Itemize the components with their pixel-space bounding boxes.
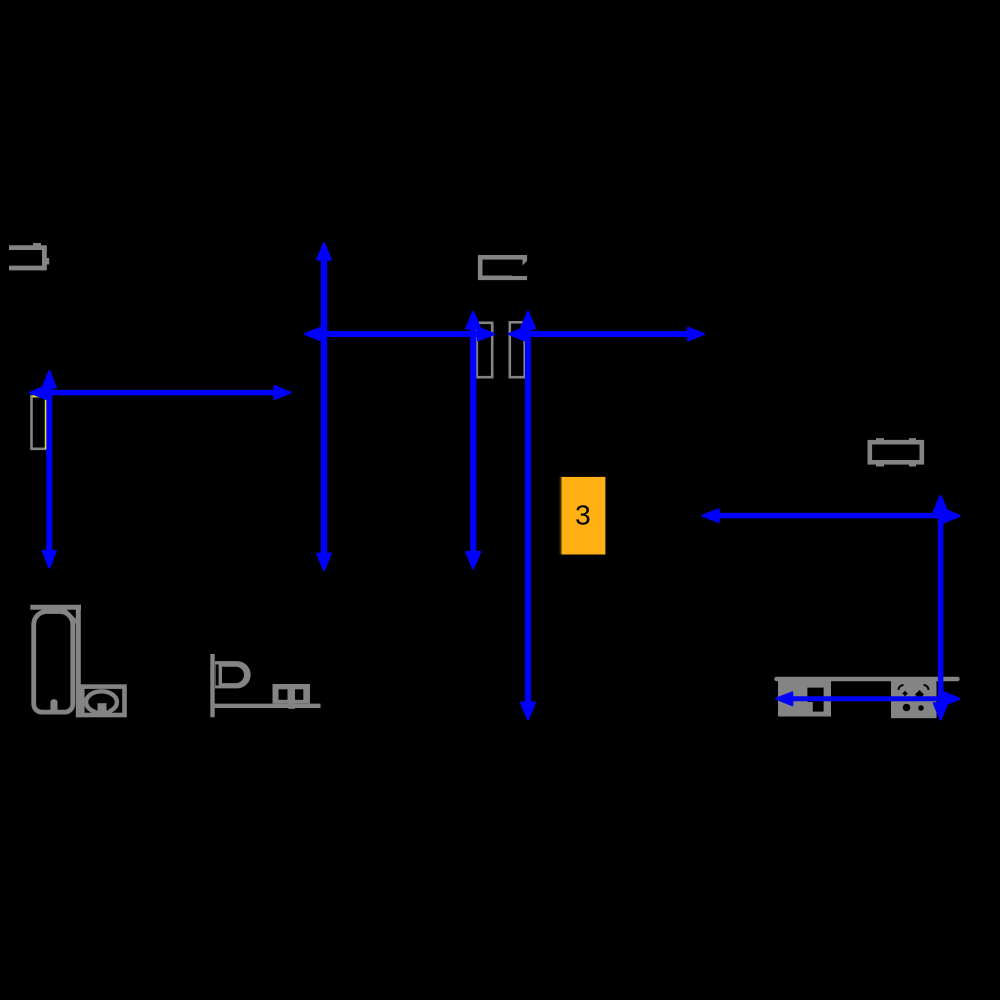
toilet outlet stub <box>96 702 109 711</box>
toilet bowl ellipse <box>86 691 117 713</box>
door D1 (left, with yellow leaf) <box>32 396 47 449</box>
dimension arrow V5 (right vertical) <box>934 496 948 720</box>
bathtub corner diagonal <box>64 610 77 623</box>
wall bracket top-left <box>9 248 44 268</box>
sink wall line <box>210 654 214 717</box>
svg-text:3: 3 <box>575 500 591 531</box>
kitchen counter line bottom-right <box>776 677 957 681</box>
toilet square <box>82 687 124 715</box>
sink counter line <box>211 704 321 708</box>
small stove block <box>273 684 311 709</box>
sink basin D <box>215 661 251 688</box>
kitchen left block <box>778 681 831 717</box>
dimension line H2 (door opening, two segments with inward arrows) <box>305 328 704 341</box>
room label 3 (orange) <box>560 477 606 555</box>
dimension arrow H1 (upper-left horizontal) <box>30 386 291 399</box>
bathtub drain stub <box>50 699 57 712</box>
window rect center-top <box>480 257 528 278</box>
bathroom: right wall line <box>76 605 81 717</box>
wall post right of door opening <box>510 322 525 377</box>
dimension arrow V3 (left of door opening) <box>466 312 480 569</box>
dimension arrow V2 (tall center-left vertical) <box>317 243 331 570</box>
dimension line H3 (right horizontal) <box>703 509 960 522</box>
bathtub <box>34 612 73 713</box>
wall post left of door opening <box>477 323 492 377</box>
stove block bottom-right <box>891 681 937 718</box>
dimension arrow V4 (right of door opening, long) <box>521 312 535 719</box>
dimension line H4 (bottom-right horizontal) <box>776 693 959 706</box>
window rect right <box>870 442 922 462</box>
bathroom: top wall line <box>30 605 81 610</box>
dimension arrow V1 (left vertical) <box>43 371 56 568</box>
